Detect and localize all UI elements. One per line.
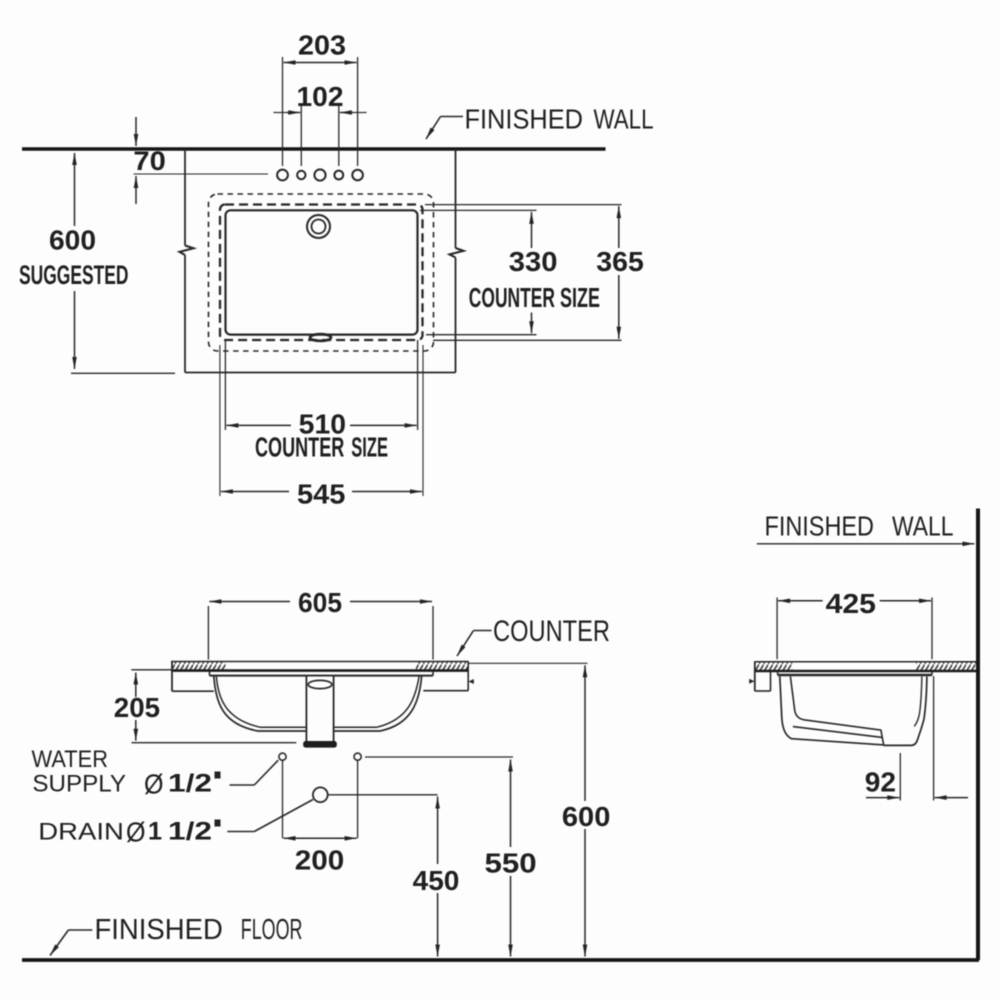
faucet hole inner circle (plan) <box>312 220 326 234</box>
bowl outer outline (front) <box>214 676 422 731</box>
svg-text:FINISHED: FINISHED <box>465 104 584 135</box>
dimension 510 line with arrows <box>226 424 416 426</box>
small arrow at counter left face (side) <box>749 679 754 684</box>
dimension 365 upper arrow segment <box>618 206 620 248</box>
COUNTER SIZE text (bottom) <box>255 432 388 463</box>
dimension 600 lower segment with arrow <box>74 291 76 369</box>
svg-text:FINISHED: FINISHED <box>95 914 223 946</box>
dimension 365 lower arrow segment <box>618 275 620 339</box>
sink rim left end (front) <box>209 671 211 676</box>
svg-text:FLOOR: FLOOR <box>241 914 303 946</box>
dimension 330 upper arrow segment <box>531 212 533 248</box>
drain tailpiece flange (front) <box>303 741 337 748</box>
counter hatched band right (side) <box>916 662 976 670</box>
counter hatched band left (side) <box>754 662 792 670</box>
svg-text:600: 600 <box>562 801 611 832</box>
dimension 102 extension lines <box>301 104 339 166</box>
bowl right wall inner (side) <box>914 677 922 727</box>
label WATER SUPPLY <box>32 746 221 800</box>
svg-text:WATER: WATER <box>32 746 109 773</box>
hole 1 (plan) <box>277 170 288 181</box>
counter underside thick line (front) <box>171 669 469 672</box>
label FINISHED WALL (plan) <box>465 104 654 135</box>
label FINISHED FLOOR <box>95 914 303 946</box>
svg-text:205: 205 <box>114 692 160 723</box>
leader for COUNTER <box>457 631 492 657</box>
dimension 70 reference line to holes <box>134 173 269 175</box>
dimension 92 right extension line <box>933 676 935 801</box>
counter underside thick line (side) <box>754 670 976 673</box>
330 bottom extension line <box>426 334 537 336</box>
330 top extension line <box>420 209 537 211</box>
dimension 92 left extension line <box>899 753 901 801</box>
dimension 600 right extension line <box>469 662 588 664</box>
dimension 510 extension lines <box>225 340 417 430</box>
svg-text:545: 545 <box>297 479 345 510</box>
dimension 545 line with arrows <box>221 491 422 493</box>
counter left edge (plan) <box>184 149 186 373</box>
dimension 600 right lower arrow segment <box>584 829 586 957</box>
hole 2 (plan) <box>297 171 305 179</box>
counter left bottom edge (side) <box>755 690 771 692</box>
svg-text:1/2: 1/2 <box>168 770 212 798</box>
counter right bottom edge (front) <box>423 690 468 692</box>
svg-text:WALL: WALL <box>594 104 654 135</box>
leader underline with arrow to wall (side) <box>757 543 975 545</box>
sink rim right end (front) <box>432 671 434 676</box>
dimension 425 line with arrows <box>778 600 931 602</box>
counter bottom edge (plan) <box>185 372 456 374</box>
dimension 330 lower arrow segment <box>531 313 533 334</box>
svg-text:1/2: 1/2 <box>168 818 212 846</box>
svg-text:COUNTER: COUNTER <box>255 432 344 463</box>
counter right edge (plan) <box>455 149 457 373</box>
bowl inner outline (side) <box>790 677 883 745</box>
drain reference line to 450 <box>328 794 438 796</box>
hole 5 (plan) <box>352 170 363 181</box>
finished wall line (plan) <box>22 147 606 151</box>
svg-text:450: 450 <box>413 865 460 896</box>
svg-text:70: 70 <box>133 146 165 176</box>
svg-text:Ø: Ø <box>144 769 164 800</box>
break mark left counter edge <box>180 246 194 256</box>
sink middle dashed rect (plan) <box>220 205 423 341</box>
dimension 200 line with arrows <box>284 837 357 839</box>
dimension 600 right upper arrow segment <box>584 665 586 801</box>
overflow slot (plan) <box>310 334 331 341</box>
sink outer rim dashed rect (plan) <box>209 194 434 351</box>
counter hatched band left (front) <box>171 662 226 670</box>
dimension 550 upper arrow segment <box>510 760 512 848</box>
svg-text:SIZE: SIZE <box>560 282 600 313</box>
dimension 102 line with outside arrows <box>274 112 367 114</box>
dimension 205 bottom extension line <box>132 742 297 744</box>
drain circle <box>313 787 328 802</box>
counter left end face (front) <box>171 662 173 692</box>
svg-text:COUNTER: COUNTER <box>469 282 555 313</box>
counter left bottom edge (front) <box>172 690 214 692</box>
svg-text:Ø: Ø <box>126 817 146 848</box>
dimension 200 extension lines <box>283 761 358 838</box>
365 bottom extension line <box>433 339 622 341</box>
svg-text:DRAIN: DRAIN <box>38 819 124 846</box>
svg-text:200: 200 <box>295 845 345 876</box>
overflow slot (front) <box>308 680 332 688</box>
counter top line (side) <box>754 661 976 663</box>
dimension 205 upper arrow segment <box>135 673 137 698</box>
dimension 605 extension lines <box>208 606 433 660</box>
svg-text:330: 330 <box>509 246 558 277</box>
svg-text:WALL: WALL <box>892 511 954 542</box>
counter top line (front) <box>171 661 469 663</box>
sink rim line (side) <box>778 674 932 676</box>
finished wall line (side) <box>976 509 980 961</box>
small arrow at counter right face <box>469 679 474 684</box>
svg-text:FINISHED: FINISHED <box>765 511 875 542</box>
water supply right reference line <box>365 756 513 758</box>
counter left end face (side) <box>754 662 756 691</box>
dimension 203 line with arrows <box>284 62 357 64</box>
leader for DRAIN <box>227 800 313 832</box>
dimension 92 left arrow <box>866 797 899 799</box>
counter right end face (front) <box>467 662 469 691</box>
counter hatched band right (front) <box>416 662 469 670</box>
dimension 205 lower arrow segment <box>135 720 137 741</box>
svg-text:SUGGESTED: SUGGESTED <box>19 260 129 290</box>
label FINISHED WALL (side) <box>765 511 954 542</box>
leader for WATER SUPPLY <box>230 760 279 785</box>
sink rim right end (side) <box>931 672 933 676</box>
365 top extension line <box>425 204 622 206</box>
svg-text:92: 92 <box>865 767 896 798</box>
svg-text:605: 605 <box>298 587 342 618</box>
finished floor line <box>22 958 979 962</box>
svg-text:102: 102 <box>297 81 344 112</box>
dimension 600 bottom extension line <box>71 372 175 374</box>
sink rim left end (side) <box>777 672 779 676</box>
dimension 600 suggested upper segment with arrow <box>74 153 76 226</box>
dimension 205 top extension line <box>131 669 171 671</box>
dimension 550 lower arrow segment <box>510 876 512 957</box>
svg-text:365: 365 <box>596 246 644 277</box>
svg-text:550: 550 <box>485 848 537 879</box>
bowl inner outline (front) <box>216 676 419 728</box>
svg-text:COUNTER: COUNTER <box>493 615 610 648</box>
dimension 425 extension lines <box>777 598 932 660</box>
svg-text:1: 1 <box>148 818 162 846</box>
svg-text:425: 425 <box>826 588 876 619</box>
dimension 70 upper arrow <box>135 117 137 146</box>
svg-text:600: 600 <box>49 224 96 255</box>
break mark right counter edge <box>450 248 464 258</box>
COUNTER SIZE text (right) <box>469 282 600 313</box>
hole 4 (plan) <box>334 171 343 180</box>
water supply left circle <box>279 753 286 760</box>
sink rim line (front) <box>210 675 434 677</box>
dimension 545 extension lines <box>220 345 423 496</box>
svg-text:SIZE: SIZE <box>351 432 388 463</box>
bowl outer outline (side) <box>780 677 927 746</box>
faucet hole outer circle (plan) <box>307 215 330 238</box>
dimension 203 extension lines <box>283 57 358 166</box>
dimension 70 lower arrow <box>135 176 137 204</box>
dimension 92 right arrow <box>935 797 968 799</box>
svg-text:203: 203 <box>298 30 346 61</box>
leader for FINISHED FLOOR <box>50 930 92 956</box>
bowl middle shell line (side) <box>793 727 882 738</box>
label DRAIN <box>38 817 220 848</box>
dimension 450 lower arrow segment <box>437 893 439 957</box>
water supply right circle <box>354 753 361 760</box>
basin cutout solid rect (plan) <box>226 210 418 334</box>
leader for FINISHED WALL (plan) <box>426 117 463 140</box>
counter left inner face (side) <box>770 672 772 691</box>
hole 3 (plan) <box>314 169 325 180</box>
dimension 605 line with arrows <box>209 601 432 603</box>
svg-text:SUPPLY: SUPPLY <box>32 771 126 798</box>
dimension 450 upper arrow segment <box>437 797 439 865</box>
drain tailpiece body (front) <box>306 676 333 742</box>
